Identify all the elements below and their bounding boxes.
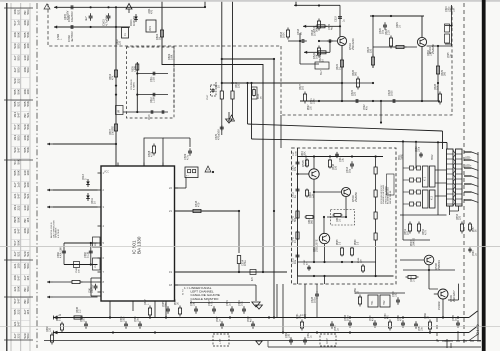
svg-text:4u7115: 4u7115: [23, 275, 30, 280]
wire lower rail: [54, 26, 130, 28]
svg-text:4u71u0: 4u71u0: [13, 182, 20, 187]
resistor R526: [346, 69, 360, 89]
op-amp IC501 BA1330: [101, 166, 175, 301]
connector housing B: [456, 149, 463, 206]
box c extra r2: [305, 216, 315, 225]
component column x375: [374, 157, 377, 277]
svg-text:VR1: VR1: [149, 26, 152, 31]
transistor Q505: [301, 155, 319, 179]
resistor R538: [424, 313, 432, 332]
wire rc emitter: [341, 46, 343, 101]
node c1: [136, 72, 138, 113]
wire relay drop1: [402, 142, 404, 241]
svg-text:O4+O: O4+O: [475, 324, 480, 335]
resistor R541: [292, 209, 300, 222]
resistor R546: [351, 239, 360, 257]
capacitor C532: [190, 300, 198, 314]
svg-text:50556K: 50556K: [13, 170, 20, 175]
svg-text:K 2: K 2: [430, 195, 434, 200]
bus arrow GND: [53, 331, 58, 335]
top page edge band: [0, 0, 500, 2]
wire q509 base: [429, 289, 438, 294]
wire cluster rail: [136, 62, 138, 112]
label R602: [116, 39, 122, 45]
wire supply drop: [162, 2, 263, 272]
faint scan line overlay A: [0, 246, 500, 248]
resistor R528: [434, 83, 442, 104]
label col520: [396, 22, 402, 28]
wire loop A: [64, 242, 98, 266]
boxed capacitor C517: [207, 85, 216, 100]
bottom edge wire: [268, 341, 481, 347]
svg-text:529547: 529547: [13, 147, 20, 152]
svg-text:VR: VR: [119, 109, 121, 113]
svg-text:5171u0: 5171u0: [13, 20, 20, 25]
left strip row separators: [11, 9, 30, 333]
wire lc left rail: [297, 148, 299, 276]
svg-text:221547: 221547: [13, 321, 20, 326]
svg-text:1N4547: 1N4547: [13, 112, 20, 118]
svg-text:529521: 529521: [23, 251, 30, 256]
capacitor C603: [102, 6, 111, 26]
node f2: [231, 82, 233, 84]
resistor R545: [337, 239, 344, 257]
label under rail: [57, 33, 63, 40]
wire branch y59: [222, 58, 275, 60]
resistor R509: [215, 81, 223, 99]
svg-text:52956K: 52956K: [23, 124, 30, 129]
bottom extra 7: [217, 316, 224, 329]
diode D601: [129, 14, 138, 26]
terminal t2: [54, 25, 57, 28]
svg-text:1N4503: 1N4503: [13, 135, 20, 141]
svg-text:10K547: 10K547: [13, 275, 20, 280]
wire bottom pair rail: [355, 293, 405, 295]
faint scan line overlay B: [0, 326, 500, 328]
wire feeder 1: [221, 2, 223, 135]
resistor R539: [46, 326, 54, 345]
capacitor C537: [303, 332, 313, 345]
capacitor C534: [392, 291, 400, 305]
svg-text:4u7521: 4u7521: [13, 251, 20, 256]
bus junctions: [109, 316, 459, 333]
svg-text:R540100K: R540100K: [301, 151, 307, 157]
resistor R544: [333, 214, 343, 223]
svg-text:TO1: TO1: [372, 300, 374, 305]
ground triangle lc: [256, 305, 263, 309]
left connector pin list column 1: [13, 9, 20, 338]
capacitor C523: [388, 89, 399, 103]
dashed service box 1: [213, 334, 229, 346]
svg-text:505100: 505100: [23, 43, 30, 48]
under relay label: [411, 237, 415, 246]
label LED+: [465, 164, 472, 168]
ground triangle bl: [256, 341, 262, 345]
component box bottom pair: [368, 295, 390, 307]
svg-text:51756K: 51756K: [13, 240, 20, 245]
svg-text:TA 7: TA 7: [320, 70, 323, 75]
wire rc y64: [300, 63, 319, 65]
right column part 1: [445, 24, 450, 32]
dashed box right-channel amp: [281, 4, 452, 115]
switch stack: [403, 166, 421, 206]
capacitor C515: [226, 300, 234, 314]
svg-text:10K56K: 10K56K: [23, 135, 30, 140]
resistor R556: [354, 288, 362, 307]
wire stub x190: [163, 138, 190, 147]
dash-dot boundary line: [36, 3, 38, 348]
wire lc q1: [313, 157, 315, 264]
svg-text:R5121.33K: R5121.33K: [150, 96, 156, 103]
wire rc col2: [372, 16, 374, 68]
wire drop x114: [115, 7, 117, 50]
resistor R522: [336, 58, 344, 71]
resistor R512: [47, 280, 98, 283]
faint scan line B: [0, 326, 500, 328]
IC501 top-bottom pins: [110, 163, 166, 305]
dashed corner bottom-right: [437, 318, 481, 341]
wire rc top bias: [370, 15, 424, 17]
wire bottom stub1: [457, 331, 459, 341]
svg-text:+ -: + -: [186, 175, 189, 178]
resistor R521: [304, 41, 330, 62]
wire loop B: [91, 278, 101, 296]
resistor R536: [72, 306, 85, 319]
svg-text:L.SP: L.SP: [219, 338, 222, 344]
bottom tick shapes: [445, 339, 452, 348]
capacitor C541: [90, 284, 98, 293]
connector pin leads: [464, 152, 479, 203]
wire ic bottom drops: [110, 305, 166, 333]
relay cap C552: [416, 146, 423, 158]
box c bottom parts: [304, 257, 365, 273]
wire input L2: [47, 189, 98, 192]
wire lc out: [342, 241, 352, 276]
svg-text:1N4222: 1N4222: [13, 205, 20, 211]
terminal t1: [54, 6, 57, 9]
capacitor C518: [297, 28, 307, 43]
wire or col: [428, 265, 430, 289]
resistor R543: [328, 159, 337, 171]
svg-text:50556K: 50556K: [13, 89, 20, 94]
wire rc out: [420, 45, 452, 101]
power triangle: [126, 4, 132, 14]
parts list text block: [381, 174, 394, 204]
capacitor C538: [57, 247, 66, 258]
resistor R529: [436, 66, 446, 76]
resistor R604: [155, 28, 164, 41]
warning mark 1: [229, 115, 235, 121]
capacitor C535: [452, 314, 460, 327]
capacitor C511: [292, 186, 300, 198]
transistor Q508: [424, 255, 441, 270]
svg-text:50556K: 50556K: [23, 101, 30, 106]
channel plus marks: [182, 289, 184, 297]
wire relay bottom: [400, 170, 459, 240]
svg-text:4u7115: 4u7115: [23, 309, 30, 314]
svg-text:+B: +B: [58, 314, 61, 317]
resistor R518: [286, 26, 300, 41]
capacitor C528: [311, 284, 319, 318]
svg-text:505521: 505521: [13, 101, 20, 106]
svg-text:K 1: K 1: [423, 176, 427, 181]
wire lc mid: [313, 191, 341, 193]
bottom extra 8: [248, 316, 255, 329]
capacitor C522: [351, 89, 362, 103]
wire feeder 2: [232, 2, 234, 118]
svg-text:50556K: 50556K: [23, 32, 30, 37]
bus wire GND: [44, 326, 481, 341]
svg-text:TO2: TO2: [384, 300, 386, 305]
svg-text:10K521: 10K521: [13, 9, 20, 14]
capacitor C539: [84, 251, 93, 258]
warning triangle 2: [205, 166, 214, 173]
diode X5133 b: [86, 193, 96, 204]
svg-text:C516: C516: [149, 114, 151, 120]
svg-text:R518100K: R518100K: [280, 31, 286, 38]
svg-text:10K503: 10K503: [23, 67, 30, 72]
right column wires: [445, 5, 453, 46]
box c extra cap: [335, 152, 344, 162]
text block anschluss: [50, 220, 60, 238]
resistor R520: [312, 46, 321, 60]
wire branch y83: [221, 82, 342, 84]
bottom extra 2: [81, 316, 88, 329]
bottom extra 12: [414, 321, 423, 331]
wire diode drop: [87, 179, 89, 193]
svg-text:221547: 221547: [13, 193, 20, 198]
boxed part at pin 4: [93, 237, 101, 247]
svg-text:C5395.135: C5395.135: [84, 251, 90, 258]
transistor Q504: [417, 37, 435, 54]
wire gnd drop: [175, 285, 257, 301]
connector housing A: [447, 149, 454, 206]
bottom label row: [58, 314, 307, 317]
component box VR601: [146, 20, 156, 32]
wire mid route 1: [246, 82, 442, 149]
dashed box sub vertical: [173, 46, 175, 108]
resistor R537: [144, 299, 152, 318]
capacitor C533: [344, 314, 352, 327]
boxed resistor R513: [252, 87, 263, 99]
capacitor C527: [208, 300, 216, 314]
dashed box tuner top-left: [48, 4, 281, 46]
wire rc collector2: [421, 16, 423, 101]
handwritten mark: [475, 324, 480, 335]
wire lc base1: [296, 173, 309, 175]
wire rc bottom rail: [300, 100, 440, 124]
corner triangle mark: [44, 4, 50, 9]
svg-text:529222: 529222: [13, 78, 20, 83]
svg-text:505503: 505503: [23, 263, 30, 268]
label cluster top: [148, 8, 174, 60]
speaker terminal box: [185, 167, 198, 178]
box c label1: [293, 150, 297, 156]
wire branch b3: [123, 110, 168, 120]
node f1: [221, 58, 223, 60]
wire input L1: [47, 143, 117, 146]
left strip tick marks: [4, 8, 33, 340]
wire rc y83: [342, 82, 374, 84]
wire caps rail: [190, 302, 250, 304]
wire mid route 2: [250, 82, 447, 149]
dashed box left-channel amp: [292, 148, 397, 284]
boxed label VR150: [116, 106, 124, 115]
capacitor C605: [84, 13, 93, 21]
resistor R507: [109, 124, 118, 135]
resistor R523: [367, 46, 375, 67]
svg-text:R5051.33K: R5051.33K: [132, 65, 138, 72]
svg-text:S501TAPE: S501TAPE: [399, 154, 403, 160]
wire input L3: [47, 206, 98, 209]
resistor R542: [292, 230, 300, 243]
svg-text:C517: C517: [207, 94, 209, 100]
capacitor C531: [120, 316, 128, 329]
resistor R519: [312, 19, 321, 33]
bottom extra 1: [57, 315, 64, 332]
channel text block: [184, 286, 220, 301]
wire top rail: [54, 6, 205, 8]
capacitor C602: [67, 25, 74, 42]
wire relay drop2: [416, 142, 438, 215]
svg-text:330503: 330503: [23, 205, 30, 210]
svg-text:529521: 529521: [23, 193, 30, 198]
svg-text:51756K: 51756K: [13, 124, 20, 129]
resistor R524: [385, 28, 393, 48]
node a4: [115, 6, 117, 28]
IC501 left pins 1-9: [98, 171, 105, 294]
wire or rail: [400, 220, 430, 252]
dashed page column line: [463, 3, 465, 345]
node a3: [90, 6, 92, 28]
boxed part C540s: [74, 262, 81, 274]
left connector pin list column 2: [23, 9, 30, 338]
bus wire B+: [53, 311, 478, 318]
right column part 2: [445, 34, 450, 43]
capacitor C530: [397, 314, 405, 327]
relay K1: [423, 166, 429, 187]
coupler label: [131, 79, 135, 90]
svg-text:4u7222: 4u7222: [13, 333, 20, 338]
label LED-: [465, 156, 471, 160]
wire lc q2 col: [327, 197, 347, 218]
svg-text:4u7503: 4u7503: [13, 67, 20, 72]
resistor R510: [231, 81, 241, 99]
wire input L6: [47, 296, 98, 299]
box c extra r3: [306, 189, 315, 199]
wire lc base3: [323, 216, 325, 234]
wire lc top rail: [298, 155, 384, 157]
dashed cap cluster box: [127, 47, 175, 118]
svg-text:10K100: 10K100: [23, 89, 30, 94]
resistor R527: [299, 83, 307, 103]
capacitor C536: [285, 332, 293, 345]
transistor Q509: [438, 289, 456, 302]
bottom extra 9: [135, 316, 142, 329]
svg-text:LED-: LED-: [465, 156, 471, 160]
bottom extra 5: [370, 315, 377, 328]
resistor R505: [132, 63, 139, 72]
svg-text:529100: 529100: [23, 182, 30, 187]
transistor Q503: [337, 36, 355, 50]
wire rc bias in: [303, 5, 341, 36]
diode X5133 a: [82, 174, 90, 187]
svg-text:VCC: VCC: [104, 172, 109, 174]
wire branch b2: [137, 93, 168, 103]
transistor Q507: [312, 233, 330, 252]
svg-text:10K56K: 10K56K: [13, 32, 20, 37]
right column labels: [445, 6, 456, 12]
ground mid: [226, 112, 233, 123]
wire out p19: [175, 271, 288, 273]
dashed service box 2: [320, 334, 336, 346]
wire rc label box: [315, 62, 329, 75]
label q503 base: [328, 23, 334, 30]
wire lc bottom rail2: [298, 275, 394, 277]
svg-text:22156K: 22156K: [13, 286, 20, 291]
relay K2: [423, 166, 436, 208]
bottom extra 10: [297, 313, 304, 331]
right mid parts: [468, 222, 477, 256]
svg-text:2SD602: 2SD602: [438, 301, 441, 310]
label rc1: [280, 31, 286, 38]
capacitor C513: [346, 161, 354, 173]
wire lc bottom exits: [277, 276, 325, 333]
wire rc base2: [373, 45, 417, 48]
svg-text:50556K: 50556K: [23, 147, 30, 152]
svg-text:221547: 221547: [13, 228, 20, 233]
svg-text:529503: 529503: [13, 43, 20, 48]
right border bar: [482, 0, 486, 351]
wire lc bottom rail: [298, 261, 376, 263]
ribbon zigzag: [453, 150, 456, 206]
svg-text:505222: 505222: [13, 309, 20, 314]
wire or base: [400, 252, 424, 260]
capacitor C520: [379, 22, 387, 34]
bottom extra 6: [385, 313, 392, 331]
svg-text:R.SP: R.SP: [326, 338, 329, 344]
wire lc q3 emit: [323, 244, 325, 263]
capacitor C510: [292, 159, 300, 171]
wire q509 down: [438, 284, 459, 318]
svg-text:221100: 221100: [13, 263, 20, 268]
capacitor C509: [183, 148, 192, 160]
wire rc drop: [335, 16, 346, 37]
left strip rule 2: [10, 3, 12, 351]
bottom extra 3: [163, 301, 170, 314]
resistor R553: [456, 213, 464, 233]
IC501 right pins: [169, 186, 178, 287]
left strip rule 4: [29, 3, 31, 351]
capacitor C512b: [292, 252, 300, 264]
wire out p21: [175, 210, 241, 272]
capacitor C514: [237, 256, 247, 267]
wire ic feed: [115, 50, 117, 166]
resistor R515: [191, 200, 204, 212]
pin stub top: [204, 2, 206, 8]
svg-text:330503: 330503: [23, 55, 30, 60]
resistor R508: [144, 144, 156, 158]
svg-text:C519: C519: [335, 16, 338, 22]
edge bus line: [477, 152, 479, 340]
svg-text:10K503: 10K503: [23, 20, 30, 25]
wire long rail x274: [273, 59, 275, 319]
wire rc in: [294, 2, 340, 7]
capacitor C601: [67, 5, 74, 22]
svg-text:330100: 330100: [23, 170, 30, 175]
wire branch b1: [137, 72, 168, 82]
capacitor C519: [327, 39, 333, 42]
